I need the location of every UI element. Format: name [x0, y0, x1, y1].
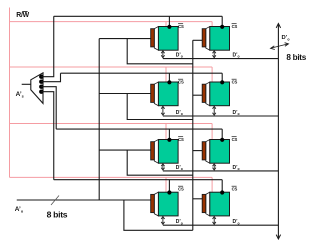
memory chip M4 (row 3, col 1): [151, 137, 184, 171]
address bus A'0 horizontal: [17, 199, 151, 201]
wire address into chip row 3 col 1: [99, 149, 151, 151]
red drop to chip row 4 col 2: [211, 177, 213, 192]
wire decoder out1 to row1 CS: [41, 16, 53, 76]
wire address into chip row 1 col 1: [99, 38, 151, 40]
wire address under-path row 2: [127, 94, 193, 120]
wire address under-path row 1: [127, 39, 193, 64]
wire CS row 4 horizontal: [54, 179, 222, 181]
red drop to chip row 3 col 1: [165, 124, 167, 140]
bus width double arrow top right: [272, 44, 288, 48]
decoder output dot 2: [39, 80, 43, 84]
svg-text:CS: CS: [232, 186, 238, 191]
memory chip M6 (row 4, col 1): [151, 186, 184, 225]
decoder output dot 4: [39, 90, 43, 94]
arrowhead data trunk top: [276, 24, 280, 28]
net R/W-bar red vertical trunk: [9, 8, 11, 178]
wire CS row 2 horizontal: [61, 72, 223, 74]
data bus row 3: [163, 170, 279, 172]
net R/W-bar red horizontal row 3: [10, 123, 213, 125]
svg-text:CS: CS: [232, 24, 238, 29]
bus width slash on A'0: [51, 196, 59, 206]
wire CS row 1 horizontal: [54, 15, 222, 17]
net R/W-bar red horizontal row 1: [10, 21, 213, 23]
data bus row 4: [163, 224, 279, 226]
wire address into chip row 2 col 1: [99, 93, 151, 95]
net R/W-bar red horizontal row 2: [10, 66, 213, 68]
wire CS row 3 horizontal: [56, 128, 222, 130]
svg-text:CS: CS: [178, 24, 184, 29]
data bus row 1: [163, 58, 279, 60]
arrowhead data trunk bottom: [276, 235, 280, 239]
wire CS row 4 drop to chip2 dot: [221, 180, 223, 193]
red drop to chip row 1 col 1: [165, 22, 167, 27]
memory chip M7 (row 4, col 2): [202, 186, 239, 225]
data trunk vertical D'0: [277, 24, 279, 239]
svg-text:CS: CS: [232, 80, 238, 85]
wire decoder out2 to row2 CS: [41, 73, 60, 82]
wire decoder out3 to row3 CS: [41, 87, 56, 129]
data bus row 2: [163, 115, 279, 117]
svg-text:CS: CS: [178, 186, 184, 191]
svg-text:CS: CS: [178, 80, 184, 85]
memory chip M3 (row 2, col 2): [202, 79, 239, 116]
net R/W-bar red horizontal row 4: [10, 176, 213, 178]
wire address into chip row 1 col 2: [193, 39, 202, 41]
red drop to chip row 2 col 1: [165, 67, 167, 82]
wire CS row 3 drop to chip1 dot: [168, 129, 170, 139]
wire CS row 1 drop to chip1 dot: [168, 16, 170, 26]
wire address into chip row 2 col 2: [193, 94, 202, 96]
wire address under-path row 4: [124, 200, 193, 230]
wire CS row 2 drop to chip2 dot: [221, 73, 223, 82]
svg-text:CS: CS: [232, 137, 238, 142]
wire CS row 2 drop to chip1 dot: [168, 73, 170, 82]
red drop to chip row 1 col 2: [211, 22, 213, 27]
memory chip M5 (row 3, col 2): [202, 137, 239, 171]
svg-text:CS: CS: [178, 137, 184, 142]
wire address riser column 2: [192, 40, 194, 230]
decoder output dot 1: [39, 75, 43, 79]
decoder U1: [31, 73, 43, 104]
svg-text:8 bits: 8 bits: [47, 210, 68, 220]
wire address riser column 1: [98, 39, 100, 200]
svg-text:8 bits: 8 bits: [286, 53, 306, 62]
memory chip M2 (row 2, col 1): [151, 79, 184, 116]
svg-text:R/W: R/W: [16, 12, 29, 19]
wire address into chip row 4 col 2: [193, 198, 202, 200]
wire CS row 3 drop to chip2 dot: [221, 129, 223, 139]
decoder input wire A's: [22, 83, 31, 85]
wire decoder out4 to row4 CS: [41, 92, 53, 180]
wire CS row 1 drop to chip2 dot: [221, 16, 223, 26]
wire address under-path row 3: [127, 150, 193, 175]
decoder output dot 3: [39, 85, 43, 89]
red drop to chip row 4 col 1: [165, 177, 167, 192]
memory chip M1 (row 1, col 2): [202, 24, 239, 59]
red drop to chip row 3 col 2: [211, 124, 213, 140]
wire address into chip row 3 col 2: [193, 150, 202, 152]
red drop to chip row 2 col 2: [211, 67, 213, 82]
memory chip M0 (row 1, col 1): [151, 24, 184, 59]
wire CS row 4 drop to chip1 dot: [168, 180, 170, 193]
